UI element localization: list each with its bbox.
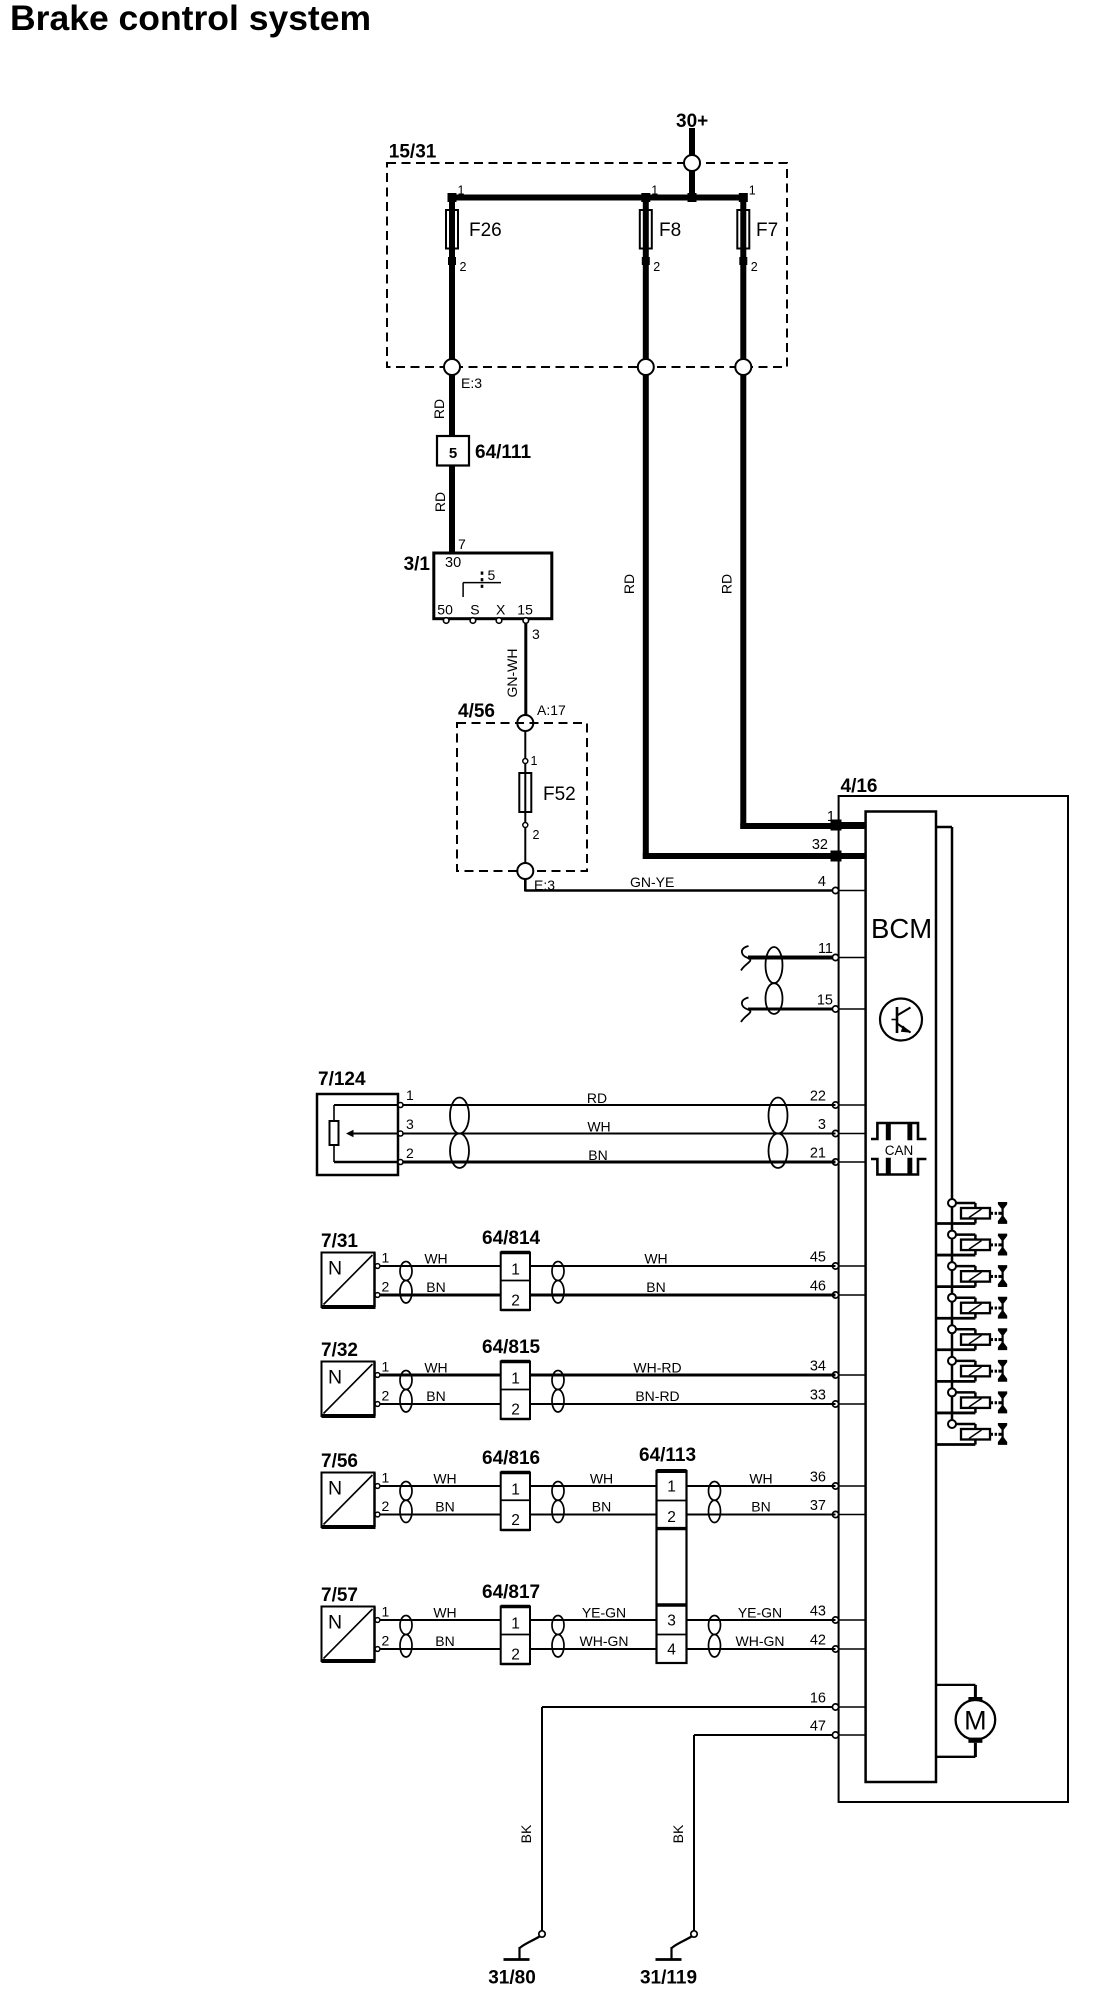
svg-text:5: 5 [488,567,496,583]
svg-text:4/56: 4/56 [458,701,495,722]
svg-text:WH: WH [424,1251,447,1267]
svg-text:WH: WH [644,1251,667,1267]
svg-text:YE-GN: YE-GN [582,1605,626,1621]
svg-text:WH: WH [433,1471,456,1487]
svg-text:3: 3 [667,1613,676,1630]
svg-text:16: 16 [810,1691,826,1707]
svg-text:N: N [328,1367,342,1389]
svg-text:50: 50 [437,602,453,618]
svg-text:WH: WH [590,1471,613,1487]
svg-text:2: 2 [460,260,467,274]
svg-text:RD: RD [431,399,447,419]
svg-text:2: 2 [382,1279,390,1295]
svg-text:2: 2 [533,828,540,842]
svg-text:RD: RD [621,574,637,594]
svg-text:WH: WH [433,1605,456,1621]
svg-text:F52: F52 [543,784,576,805]
svg-text:15: 15 [817,993,833,1009]
svg-text:34: 34 [810,1359,826,1375]
svg-text:45: 45 [810,1250,826,1266]
svg-text:7/57: 7/57 [321,1585,358,1606]
svg-text:1: 1 [382,1604,390,1620]
svg-text:4: 4 [818,874,826,890]
svg-text:BN: BN [435,1633,454,1649]
svg-text:X: X [496,602,506,618]
svg-text:46: 46 [810,1279,826,1295]
svg-text:2: 2 [382,1388,390,1404]
svg-text:5: 5 [449,445,457,462]
svg-text:YE-GN: YE-GN [738,1605,782,1621]
svg-text:F7: F7 [756,220,778,241]
svg-text:WH: WH [424,1360,447,1376]
svg-text:2: 2 [751,260,758,274]
svg-text:F8: F8 [659,220,681,241]
svg-text:43: 43 [810,1604,826,1620]
svg-text:3/1: 3/1 [404,554,431,575]
svg-text:N: N [328,1478,342,1500]
svg-text:WH-GN: WH-GN [580,1633,629,1649]
svg-text:4/16: 4/16 [841,776,878,797]
svg-text:3: 3 [532,626,540,642]
svg-text:BN-RD: BN-RD [635,1388,679,1404]
svg-text:7/56: 7/56 [321,1451,358,1472]
svg-text:BK: BK [670,1824,686,1843]
svg-text:RD: RD [719,574,735,594]
svg-text:CAN: CAN [885,1143,914,1158]
svg-text:BN: BN [426,1388,445,1404]
svg-text:2: 2 [511,1647,520,1664]
svg-text:1: 1 [406,1087,414,1103]
svg-text:31/119: 31/119 [640,1968,697,1989]
svg-text:1: 1 [382,1359,390,1375]
svg-text:7: 7 [458,536,466,552]
svg-text:BCM: BCM [871,913,932,944]
svg-text:RD: RD [587,1090,607,1106]
svg-text:15: 15 [517,602,533,618]
svg-text:BN: BN [435,1499,454,1515]
svg-text:1: 1 [749,184,756,198]
svg-text:2: 2 [382,1498,390,1514]
svg-text:BK: BK [518,1824,534,1843]
svg-text:2: 2 [382,1633,390,1649]
svg-text:1: 1 [382,1250,390,1266]
svg-text:64/814: 64/814 [482,1228,541,1249]
svg-text:4: 4 [667,1642,676,1659]
svg-text:1: 1 [531,754,538,768]
svg-text:64/816: 64/816 [482,1448,540,1469]
svg-text:3: 3 [406,1116,414,1132]
svg-text:BN: BN [592,1499,611,1515]
svg-text:S: S [470,602,479,618]
svg-text:BN: BN [588,1147,607,1163]
svg-text:42: 42 [810,1633,826,1649]
svg-text:BN: BN [426,1279,445,1295]
svg-text:1: 1 [511,1262,520,1279]
svg-text:32: 32 [812,837,828,853]
svg-text:1: 1 [511,1616,520,1633]
svg-text:1: 1 [667,1479,676,1496]
svg-text:7/124: 7/124 [318,1069,366,1090]
svg-text:WH-RD: WH-RD [633,1360,681,1376]
svg-text:F26: F26 [469,220,502,241]
svg-text:31/80: 31/80 [488,1968,536,1989]
svg-text:N: N [328,1258,342,1280]
svg-text:37: 37 [810,1498,826,1514]
svg-text:A:17: A:17 [537,702,566,718]
svg-text:7/31: 7/31 [321,1231,358,1252]
svg-text:33: 33 [810,1388,826,1404]
svg-text:3: 3 [818,1117,826,1133]
svg-text:36: 36 [810,1470,826,1486]
svg-text:11: 11 [818,941,833,957]
svg-text:64/815: 64/815 [482,1337,541,1358]
svg-text:RD: RD [432,492,448,512]
svg-text:22: 22 [810,1089,826,1105]
svg-text:47: 47 [810,1719,826,1735]
svg-text:1: 1 [511,1371,520,1388]
svg-text:15/31: 15/31 [389,142,437,163]
svg-text:Brake control system: Brake control system [10,0,371,38]
svg-text:64/817: 64/817 [482,1582,540,1603]
svg-text:64/111: 64/111 [475,442,531,463]
svg-text:1: 1 [458,184,465,198]
svg-text:2: 2 [511,1512,520,1529]
svg-text:E:3: E:3 [461,375,482,391]
svg-text:N: N [328,1612,342,1634]
svg-text:64/113: 64/113 [639,1445,696,1466]
svg-text:2: 2 [511,1293,520,1310]
svg-text:BN: BN [646,1279,665,1295]
svg-text:GN-YE: GN-YE [630,874,674,890]
svg-text:7/32: 7/32 [321,1340,358,1361]
svg-text:M: M [964,1706,987,1736]
svg-text:2: 2 [406,1145,414,1161]
svg-text:1: 1 [651,184,658,198]
svg-text:30: 30 [445,555,461,571]
svg-text:2: 2 [653,260,660,274]
svg-text:2: 2 [511,1402,520,1419]
svg-text:21: 21 [810,1146,826,1162]
svg-text:1: 1 [511,1482,520,1499]
svg-text:WH-GN: WH-GN [736,1633,785,1649]
svg-text:1: 1 [382,1470,390,1486]
svg-text:WH: WH [587,1119,610,1135]
svg-text:WH: WH [749,1471,772,1487]
svg-text:2: 2 [667,1509,676,1526]
svg-text:1: 1 [827,809,835,825]
svg-text:BN: BN [751,1499,770,1515]
svg-text:GN-WH: GN-WH [504,649,520,698]
